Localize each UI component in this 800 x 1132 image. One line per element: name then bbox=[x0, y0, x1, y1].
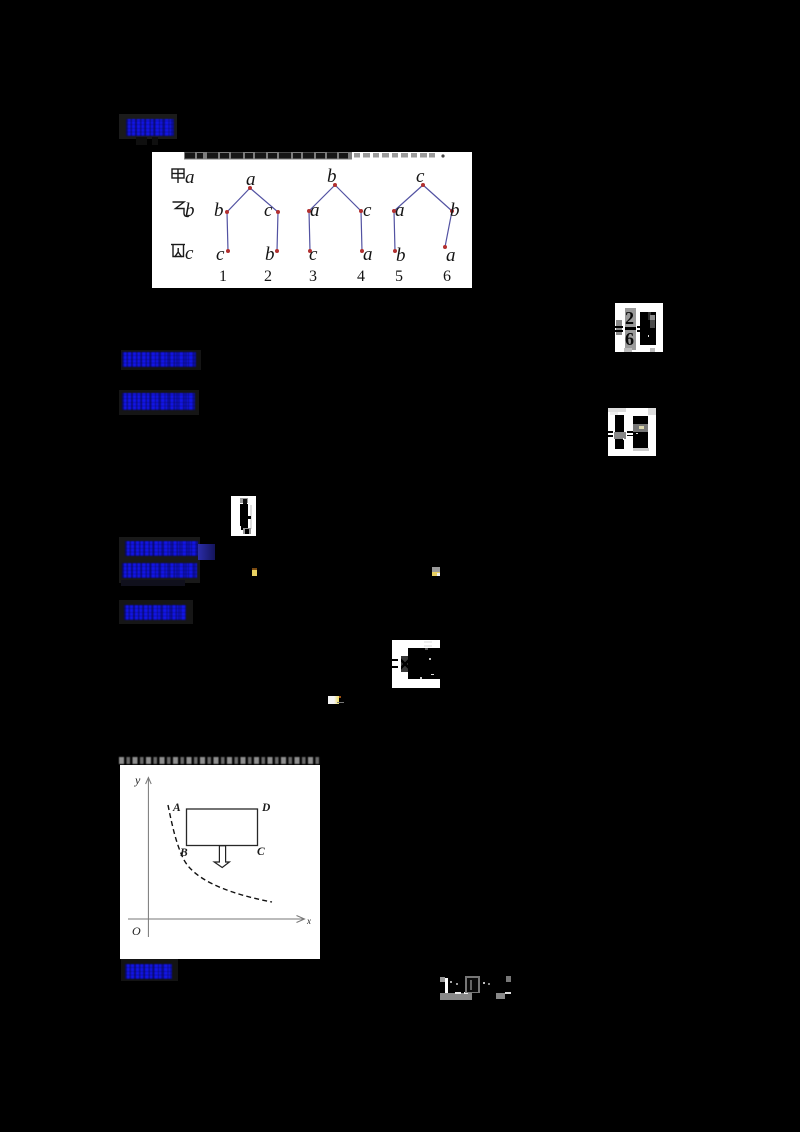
svg-text:a: a bbox=[363, 244, 373, 265]
svg-text:a: a bbox=[310, 200, 320, 221]
svg-text:x: x bbox=[306, 916, 311, 926]
svg-text:a: a bbox=[185, 167, 195, 188]
svg-text:3: 3 bbox=[309, 268, 317, 285]
svg-text:b: b bbox=[327, 166, 337, 187]
svg-text:c: c bbox=[264, 200, 273, 221]
svg-text:a: a bbox=[446, 245, 456, 266]
svg-text:C: C bbox=[257, 846, 265, 858]
svg-text:c: c bbox=[185, 243, 194, 264]
svg-text:c: c bbox=[416, 166, 425, 187]
svg-text:5: 5 bbox=[395, 268, 403, 285]
svg-text:O: O bbox=[132, 924, 141, 938]
svg-text:c: c bbox=[363, 200, 372, 221]
svg-text:b: b bbox=[396, 245, 406, 266]
svg-text:a: a bbox=[246, 169, 256, 190]
svg-text:b: b bbox=[265, 244, 275, 265]
svg-text:b: b bbox=[450, 200, 460, 221]
svg-text:c: c bbox=[309, 244, 318, 265]
svg-text:y: y bbox=[134, 773, 141, 787]
svg-text:6: 6 bbox=[443, 268, 451, 285]
svg-text:a: a bbox=[395, 200, 405, 221]
svg-text:c: c bbox=[216, 244, 225, 265]
svg-text:b: b bbox=[214, 200, 224, 221]
svg-text:4: 4 bbox=[357, 268, 365, 285]
svg-text:b: b bbox=[185, 200, 195, 221]
svg-text:2: 2 bbox=[264, 268, 272, 285]
svg-text:1: 1 bbox=[219, 268, 227, 285]
svg-text:A: A bbox=[172, 802, 181, 814]
svg-text:D: D bbox=[261, 802, 271, 814]
